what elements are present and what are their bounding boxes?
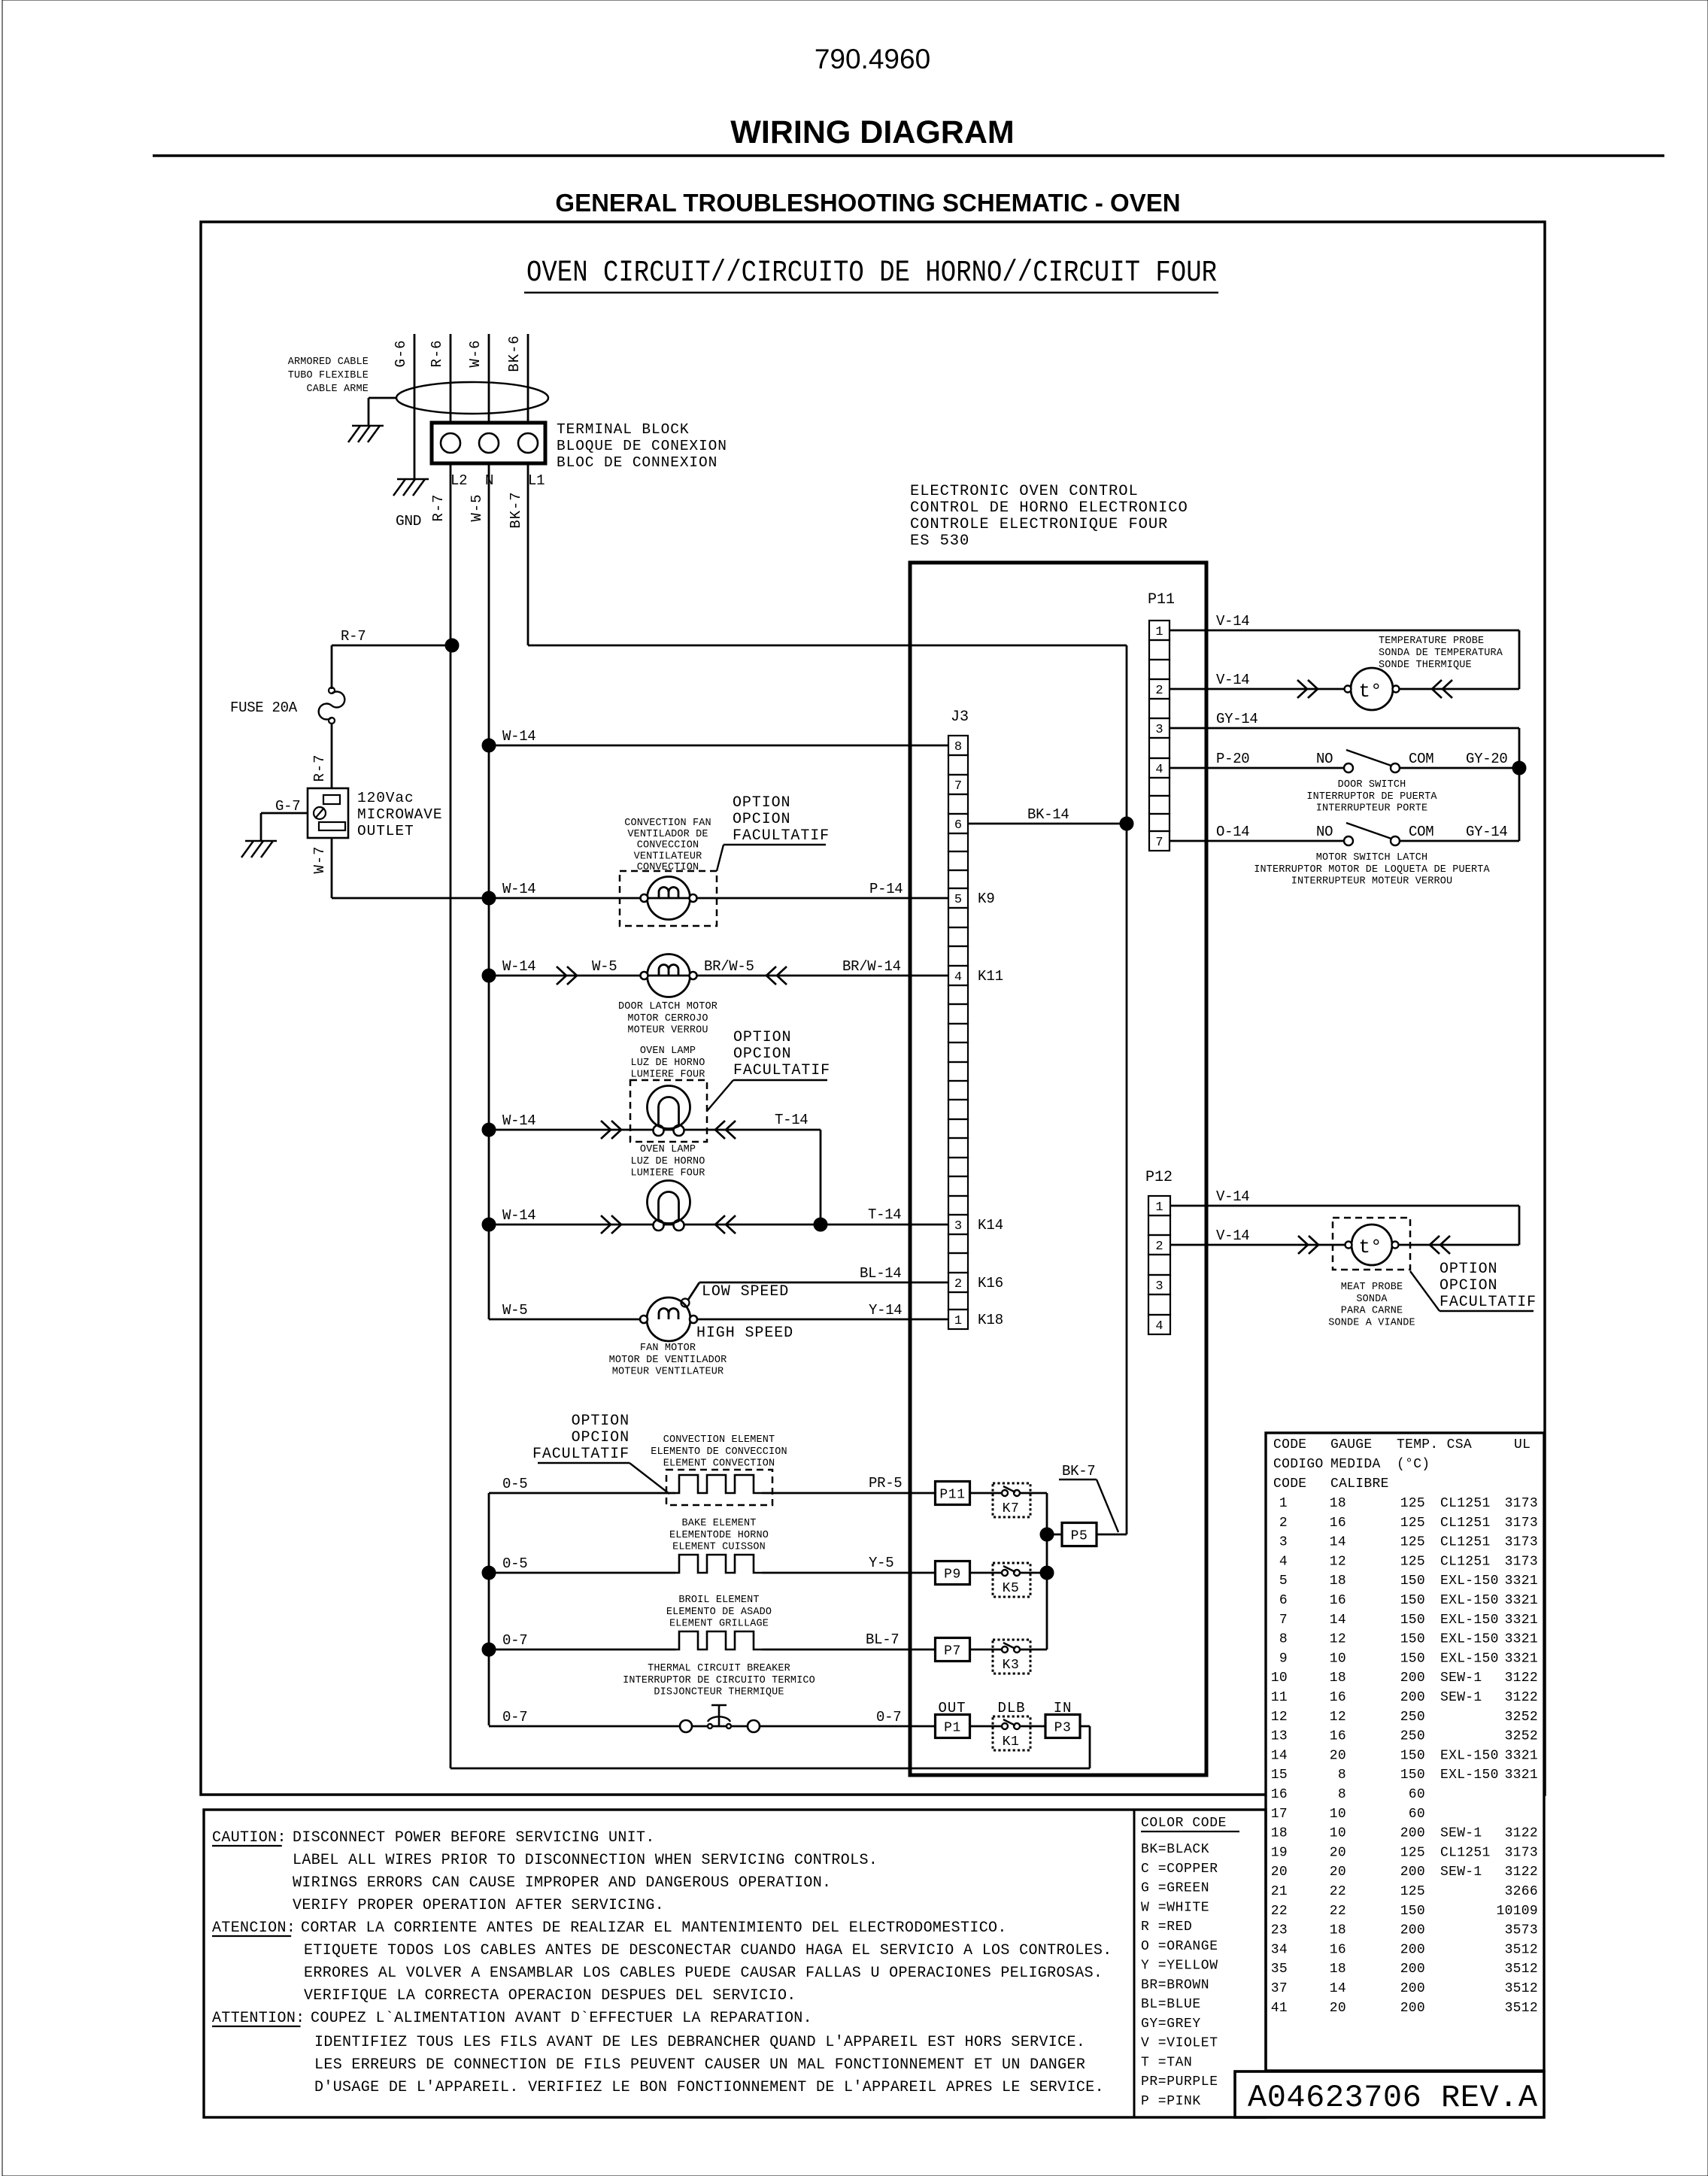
svg-text:A04623706 REV.A: A04623706 REV.A <box>1248 2080 1538 2116</box>
svg-text:PR-5: PR-5 <box>869 1475 902 1492</box>
svg-text:P-14: P-14 <box>869 881 903 897</box>
svg-text:200: 200 <box>1400 1981 1425 1996</box>
svg-text:LUMIERE FOUR: LUMIERE FOUR <box>630 1070 705 1081</box>
svg-text:200: 200 <box>1400 1671 1425 1686</box>
svg-text:SEW-1: SEW-1 <box>1440 1865 1482 1880</box>
svg-text:BK-6: BK-6 <box>506 335 523 372</box>
svg-text:CONTROLE ELECTRONIQUE FOUR: CONTROLE ELECTRONIQUE FOUR <box>910 516 1168 533</box>
svg-text:200: 200 <box>1400 1865 1425 1880</box>
svg-text:5: 5 <box>1279 1574 1288 1589</box>
svg-text:200: 200 <box>1400 1962 1425 1977</box>
svg-text:OVEN LAMP: OVEN LAMP <box>640 1144 696 1155</box>
svg-text:MEDIDA: MEDIDA <box>1330 1457 1381 1472</box>
svg-text:TEMP. CSA: TEMP. CSA <box>1397 1437 1472 1452</box>
svg-text:GY=GREY: GY=GREY <box>1141 2017 1201 2032</box>
svg-text:GY-14: GY-14 <box>1466 824 1508 840</box>
svg-text:P12: P12 <box>1145 1169 1173 1186</box>
svg-text:18: 18 <box>1330 1923 1346 1938</box>
svg-text:FAN MOTOR: FAN MOTOR <box>640 1343 696 1354</box>
svg-text:W =WHITE: W =WHITE <box>1141 1900 1209 1915</box>
svg-text:OVEN CIRCUIT//CIRCUITO DE HORN: OVEN CIRCUIT//CIRCUITO DE HORNO//CIRCUIT… <box>526 256 1217 290</box>
svg-text:12: 12 <box>1330 1554 1346 1569</box>
svg-text:MOTEUR VENTILATEUR: MOTEUR VENTILATEUR <box>612 1367 724 1378</box>
svg-text:18: 18 <box>1330 1671 1346 1686</box>
svg-text:CONVECTION ELEMENT: CONVECTION ELEMENT <box>663 1434 775 1446</box>
svg-text:7: 7 <box>954 779 962 794</box>
svg-text:P-20: P-20 <box>1216 751 1249 767</box>
svg-text:COUPEZ L`ALIMENTATION AVANT D`: COUPEZ L`ALIMENTATION AVANT D`EFFECTUER … <box>311 2010 812 2027</box>
svg-text:INTERRUPTEUR PORTE: INTERRUPTEUR PORTE <box>1316 803 1428 815</box>
svg-text:COM: COM <box>1409 824 1433 840</box>
svg-text:125: 125 <box>1400 1516 1425 1531</box>
svg-text:t°: t° <box>1358 1236 1382 1258</box>
svg-text:P9: P9 <box>944 1568 961 1583</box>
svg-text:250: 250 <box>1400 1729 1425 1744</box>
svg-text:BAKE ELEMENT: BAKE ELEMENT <box>681 1518 756 1529</box>
svg-text:125: 125 <box>1400 1884 1425 1899</box>
svg-text:0-7: 0-7 <box>502 1632 527 1649</box>
svg-text:TEMPERATURE PROBE: TEMPERATURE PROBE <box>1379 636 1484 647</box>
svg-text:790.4960: 790.4960 <box>815 44 930 74</box>
svg-text:COLOR CODE: COLOR CODE <box>1141 1816 1227 1831</box>
svg-text:4: 4 <box>954 970 962 985</box>
svg-text:GAUGE: GAUGE <box>1330 1437 1373 1452</box>
svg-text:SONDA: SONDA <box>1356 1294 1388 1305</box>
svg-text:Y-14: Y-14 <box>869 1302 902 1319</box>
svg-text:T-14: T-14 <box>775 1112 808 1128</box>
svg-text:60: 60 <box>1409 1807 1425 1822</box>
svg-text:VENTILADOR DE: VENTILADOR DE <box>627 829 708 840</box>
svg-text:NO: NO <box>1316 751 1333 767</box>
svg-text:3173: 3173 <box>1505 1554 1538 1569</box>
svg-text:GND: GND <box>396 513 421 530</box>
svg-text:W-5: W-5 <box>469 494 485 522</box>
svg-text:P5: P5 <box>1071 1529 1088 1544</box>
svg-text:3512: 3512 <box>1505 1962 1538 1977</box>
svg-text:20: 20 <box>1330 2001 1346 2016</box>
svg-text:WIRING DIAGRAM: WIRING DIAGRAM <box>730 114 1014 150</box>
svg-text:16: 16 <box>1330 1690 1346 1705</box>
svg-text:BL-14: BL-14 <box>860 1265 902 1282</box>
svg-text:VERIFY PROPER OPERATION AFTER: VERIFY PROPER OPERATION AFTER SERVICING. <box>293 1897 664 1914</box>
svg-text:3252: 3252 <box>1505 1710 1538 1725</box>
svg-text:LUMIERE FOUR: LUMIERE FOUR <box>630 1168 705 1179</box>
svg-text:CL1251: CL1251 <box>1440 1554 1491 1569</box>
svg-text:11: 11 <box>1271 1690 1288 1705</box>
svg-text:SONDE THERMIQUE: SONDE THERMIQUE <box>1379 660 1472 671</box>
svg-text:10109: 10109 <box>1496 1904 1538 1919</box>
svg-text:EXL-150: EXL-150 <box>1440 1632 1499 1647</box>
svg-text:3173: 3173 <box>1505 1496 1538 1511</box>
svg-text:20: 20 <box>1330 1845 1346 1860</box>
svg-text:3512: 3512 <box>1505 2001 1538 2016</box>
svg-text:PARA CARNE: PARA CARNE <box>1341 1306 1403 1317</box>
svg-text:V-14: V-14 <box>1216 672 1249 688</box>
svg-text:T-14: T-14 <box>868 1206 901 1223</box>
svg-text:16: 16 <box>1330 1593 1346 1608</box>
svg-text:MOTEUR VERROU: MOTEUR VERROU <box>627 1025 708 1036</box>
svg-text:120Vac: 120Vac <box>357 790 414 806</box>
svg-text:W-14: W-14 <box>502 1112 535 1129</box>
svg-text:CONVECTION: CONVECTION <box>637 862 699 873</box>
svg-text:THERMAL CIRCUIT BREAKER: THERMAL CIRCUIT BREAKER <box>648 1663 790 1674</box>
svg-text:CORTAR LA CORRIENTE ANTES DE R: CORTAR LA CORRIENTE ANTES DE REALIZAR EL… <box>301 1920 1007 1937</box>
svg-text:60: 60 <box>1409 1787 1425 1802</box>
svg-text:LOW SPEED: LOW SPEED <box>702 1283 789 1300</box>
svg-text:3321: 3321 <box>1505 1613 1538 1628</box>
svg-text:18: 18 <box>1330 1962 1346 1977</box>
svg-text:EXL-150: EXL-150 <box>1440 1593 1499 1608</box>
svg-text:W-6: W-6 <box>467 340 484 368</box>
svg-text:3512: 3512 <box>1505 1981 1538 1996</box>
svg-text:K5: K5 <box>1003 1581 1020 1596</box>
svg-text:ELEMENTODE HORNO: ELEMENTODE HORNO <box>669 1530 769 1541</box>
svg-text:MOTOR DE VENTILADOR: MOTOR DE VENTILADOR <box>609 1355 727 1366</box>
svg-text:125: 125 <box>1400 1496 1425 1511</box>
svg-text:20: 20 <box>1330 1748 1346 1763</box>
svg-text:GY-14: GY-14 <box>1216 711 1258 727</box>
svg-text:3321: 3321 <box>1505 1768 1538 1783</box>
svg-text:P11: P11 <box>1148 591 1175 608</box>
svg-text:18: 18 <box>1330 1574 1346 1589</box>
svg-text:W-14: W-14 <box>502 881 535 897</box>
svg-text:1: 1 <box>954 1314 962 1328</box>
svg-text:BR/W-5: BR/W-5 <box>704 958 754 975</box>
svg-text:2: 2 <box>1155 684 1163 698</box>
svg-text:35: 35 <box>1271 1962 1288 1977</box>
svg-text:150: 150 <box>1400 1651 1425 1666</box>
svg-text:10: 10 <box>1271 1671 1288 1686</box>
svg-text:EXL-150: EXL-150 <box>1440 1768 1499 1783</box>
svg-text:C =COPPER: C =COPPER <box>1141 1862 1218 1877</box>
svg-text:R-7: R-7 <box>430 494 447 522</box>
svg-text:WIRINGS ERRORS CAN CAUSE IMPRO: WIRINGS ERRORS CAN CAUSE IMPROPER AND DA… <box>293 1874 831 1892</box>
svg-text:16: 16 <box>1330 1516 1346 1531</box>
svg-text:CODE: CODE <box>1273 1437 1306 1452</box>
svg-text:3: 3 <box>1155 723 1163 737</box>
svg-text:SEW-1: SEW-1 <box>1440 1826 1482 1841</box>
svg-text:150: 150 <box>1400 1748 1425 1763</box>
svg-text:0-7: 0-7 <box>502 1709 527 1725</box>
svg-text:34: 34 <box>1271 1942 1288 1957</box>
svg-text:K14: K14 <box>978 1217 1003 1234</box>
svg-text:BL=BLUE: BL=BLUE <box>1141 1997 1201 2012</box>
svg-text:O-14: O-14 <box>1216 824 1249 840</box>
svg-text:EXL-150: EXL-150 <box>1440 1574 1499 1589</box>
svg-text:t°: t° <box>1358 680 1382 703</box>
svg-text:BLOQUE DE CONEXION: BLOQUE DE CONEXION <box>557 438 727 454</box>
svg-text:HIGH SPEED: HIGH SPEED <box>696 1325 793 1342</box>
svg-text:22: 22 <box>1271 1904 1288 1919</box>
svg-text:CAUTION:: CAUTION: <box>212 1829 287 1847</box>
svg-text:V-14: V-14 <box>1216 613 1249 630</box>
svg-text:G-6: G-6 <box>393 340 409 368</box>
svg-text:LUZ DE HORNO: LUZ DE HORNO <box>630 1058 705 1069</box>
svg-text:150: 150 <box>1400 1632 1425 1647</box>
svg-text:P3: P3 <box>1054 1721 1072 1736</box>
svg-text:DOOR SWITCH: DOOR SWITCH <box>1338 779 1406 791</box>
svg-text:CL1251: CL1251 <box>1440 1516 1491 1531</box>
svg-text:6: 6 <box>1279 1593 1288 1608</box>
svg-text:K3: K3 <box>1003 1658 1020 1673</box>
svg-text:3321: 3321 <box>1505 1632 1538 1647</box>
svg-text:P =PINK: P =PINK <box>1141 2094 1201 2109</box>
svg-text:V-14: V-14 <box>1216 1188 1249 1205</box>
svg-text:UL: UL <box>1514 1437 1531 1452</box>
svg-text:INTERRUPTEUR MOTEUR VERROU: INTERRUPTEUR MOTEUR VERROU <box>1291 876 1453 888</box>
svg-text:16: 16 <box>1271 1787 1288 1802</box>
svg-text:14: 14 <box>1330 1535 1346 1550</box>
svg-text:MEAT PROBE: MEAT PROBE <box>1341 1282 1403 1293</box>
svg-text:250: 250 <box>1400 1710 1425 1725</box>
svg-text:3321: 3321 <box>1505 1651 1538 1666</box>
svg-text:150: 150 <box>1400 1768 1425 1783</box>
svg-text:W-5: W-5 <box>592 958 617 975</box>
svg-text:R-7: R-7 <box>341 628 366 645</box>
svg-text:NO: NO <box>1316 824 1333 840</box>
svg-text:ELEMENT CUISSON: ELEMENT CUISSON <box>672 1542 766 1553</box>
svg-text:16: 16 <box>1330 1729 1346 1744</box>
svg-text:3512: 3512 <box>1505 1942 1538 1957</box>
svg-text:W-14: W-14 <box>502 958 535 975</box>
svg-text:ES 530: ES 530 <box>910 533 969 550</box>
svg-text:19: 19 <box>1271 1845 1288 1860</box>
svg-text:GY-20: GY-20 <box>1466 751 1508 767</box>
svg-text:TERMINAL BLOCK: TERMINAL BLOCK <box>557 421 689 438</box>
svg-text:3122: 3122 <box>1505 1865 1538 1880</box>
svg-text:BLOC DE CONNEXION: BLOC DE CONNEXION <box>557 454 717 471</box>
svg-text:ELEMENTO DE CONVECCION: ELEMENTO DE CONVECCION <box>651 1446 787 1458</box>
svg-text:10: 10 <box>1330 1807 1346 1822</box>
svg-text:DISJONCTEUR THERMIQUE: DISJONCTEUR THERMIQUE <box>654 1687 784 1698</box>
svg-text:3321: 3321 <box>1505 1593 1538 1608</box>
svg-text:3122: 3122 <box>1505 1671 1538 1686</box>
svg-text:K1: K1 <box>1003 1734 1020 1750</box>
svg-text:PR=PURPLE: PR=PURPLE <box>1141 2074 1218 2090</box>
svg-text:ERRORES AL VOLVER A ENSAMBLAR: ERRORES AL VOLVER A ENSAMBLAR LOS CABLES… <box>304 1965 1103 1982</box>
svg-text:14: 14 <box>1271 1748 1288 1763</box>
svg-text:VERIFIQUE LA CORRECTA OPERACIO: VERIFIQUE LA CORRECTA OPERACION DESPUES … <box>304 1987 796 2005</box>
svg-text:BL-7: BL-7 <box>866 1631 899 1648</box>
svg-text:P7: P7 <box>944 1644 961 1659</box>
svg-text:CONVECCION: CONVECCION <box>637 840 699 851</box>
svg-text:DLB: DLB <box>998 1700 1026 1716</box>
svg-text:CL1251: CL1251 <box>1440 1845 1491 1860</box>
svg-text:BROIL ELEMENT: BROIL ELEMENT <box>678 1595 759 1606</box>
svg-text:12: 12 <box>1330 1632 1346 1647</box>
svg-text:0-5: 0-5 <box>502 1555 527 1572</box>
svg-text:12: 12 <box>1330 1710 1346 1725</box>
svg-text:MOTOR CERROJO: MOTOR CERROJO <box>627 1013 708 1024</box>
svg-text:3573: 3573 <box>1505 1923 1538 1938</box>
svg-text:13: 13 <box>1271 1729 1288 1744</box>
svg-text:4: 4 <box>1155 1319 1163 1334</box>
svg-text:OPCION: OPCION <box>1440 1277 1497 1294</box>
svg-text:1: 1 <box>1155 625 1163 639</box>
svg-text:22: 22 <box>1330 1904 1346 1919</box>
svg-text:1: 1 <box>1279 1496 1288 1511</box>
svg-text:OPCION: OPCION <box>733 811 790 828</box>
svg-text:OVEN LAMP: OVEN LAMP <box>640 1046 696 1057</box>
svg-text:BK-7: BK-7 <box>508 491 524 528</box>
svg-text:D'USAGE DE L'APPAREIL. VERIFIE: D'USAGE DE L'APPAREIL. VERIFIEZ LE BON F… <box>314 2079 1104 2096</box>
svg-text:COM: COM <box>1409 751 1433 767</box>
svg-text:7: 7 <box>1279 1613 1288 1628</box>
svg-text:P11: P11 <box>939 1488 965 1503</box>
svg-text:(°C): (°C) <box>1397 1457 1430 1472</box>
svg-text:EXL-150: EXL-150 <box>1440 1651 1499 1666</box>
svg-text:VENTILATEUR: VENTILATEUR <box>634 851 702 862</box>
svg-text:W-14: W-14 <box>502 1207 535 1224</box>
svg-text:OPTION: OPTION <box>733 1029 791 1046</box>
svg-text:37: 37 <box>1271 1981 1288 1996</box>
svg-text:GENERAL TROUBLESHOOTING SCHEMA: GENERAL TROUBLESHOOTING SCHEMATIC - OVEN <box>555 189 1180 217</box>
svg-text:L2: L2 <box>451 472 467 489</box>
svg-text:OUTLET: OUTLET <box>357 823 414 839</box>
svg-text:3173: 3173 <box>1505 1845 1538 1860</box>
svg-text:150: 150 <box>1400 1593 1425 1608</box>
svg-text:INTERRUPTOR MOTOR DE LOQUETA D: INTERRUPTOR MOTOR DE LOQUETA DE PUERTA <box>1254 864 1490 876</box>
svg-text:3173: 3173 <box>1505 1535 1538 1550</box>
svg-text:5: 5 <box>954 893 962 907</box>
svg-text:R =RED: R =RED <box>1141 1920 1192 1935</box>
svg-text:8: 8 <box>1338 1787 1346 1802</box>
svg-text:200: 200 <box>1400 1923 1425 1938</box>
svg-text:12: 12 <box>1271 1710 1288 1725</box>
svg-text:SEW-1: SEW-1 <box>1440 1671 1482 1686</box>
svg-text:3: 3 <box>954 1219 962 1234</box>
svg-text:J3: J3 <box>951 709 969 726</box>
svg-text:9: 9 <box>1279 1651 1288 1666</box>
svg-text:TUBO FLEXIBLE: TUBO FLEXIBLE <box>288 370 369 381</box>
svg-text:3: 3 <box>1155 1279 1163 1294</box>
svg-text:3: 3 <box>1279 1535 1288 1550</box>
svg-text:CODE: CODE <box>1273 1476 1306 1492</box>
svg-text:16: 16 <box>1330 1942 1346 1957</box>
svg-text:INTERRUPTOR DE PUERTA: INTERRUPTOR DE PUERTA <box>1306 791 1437 803</box>
svg-text:FACULTATIF: FACULTATIF <box>733 1062 830 1079</box>
svg-text:LABEL ALL WIRES PRIOR TO DISCO: LABEL ALL WIRES PRIOR TO DISCONNECTION W… <box>293 1852 878 1869</box>
svg-text:10: 10 <box>1330 1651 1346 1666</box>
svg-text:ATENCION:: ATENCION: <box>212 1920 296 1937</box>
svg-text:MOTOR SWITCH LATCH: MOTOR SWITCH LATCH <box>1316 852 1428 863</box>
svg-text:3321: 3321 <box>1505 1748 1538 1763</box>
svg-text:INTERRUPTOR DE CIRCUITO TERMIC: INTERRUPTOR DE CIRCUITO TERMICO <box>623 1675 815 1686</box>
svg-text:CALIBRE: CALIBRE <box>1330 1476 1389 1492</box>
svg-text:CABLE ARME: CABLE ARME <box>306 384 369 395</box>
svg-text:OPTION: OPTION <box>1440 1261 1497 1278</box>
svg-text:BR=BROWN: BR=BROWN <box>1141 1977 1209 1992</box>
svg-text:G =GREEN: G =GREEN <box>1141 1881 1209 1896</box>
svg-text:3122: 3122 <box>1505 1690 1538 1705</box>
svg-text:BK-7: BK-7 <box>1062 1463 1095 1479</box>
svg-text:41: 41 <box>1271 2001 1288 2016</box>
svg-text:4: 4 <box>1279 1554 1288 1569</box>
svg-text:200: 200 <box>1400 2001 1425 2016</box>
svg-text:LES ERREURS DE CONNECTION DE F: LES ERREURS DE CONNECTION DE FILS PEUVEN… <box>314 2056 1085 2074</box>
svg-text:17: 17 <box>1271 1807 1288 1822</box>
svg-text:CODIGO: CODIGO <box>1273 1457 1324 1472</box>
svg-text:W-14: W-14 <box>502 728 535 745</box>
svg-text:0-5: 0-5 <box>502 1476 527 1492</box>
svg-text:22: 22 <box>1330 1884 1346 1899</box>
svg-text:SONDE A VIANDE: SONDE A VIANDE <box>1328 1317 1415 1328</box>
svg-text:K7: K7 <box>1003 1501 1020 1516</box>
svg-text:20: 20 <box>1271 1865 1288 1880</box>
svg-text:K9: K9 <box>978 891 995 907</box>
svg-text:3266: 3266 <box>1505 1884 1538 1899</box>
svg-text:W-7: W-7 <box>311 846 328 874</box>
svg-text:EXL-150: EXL-150 <box>1440 1613 1499 1628</box>
svg-text:125: 125 <box>1400 1535 1425 1550</box>
svg-text:Y =YELLOW: Y =YELLOW <box>1141 1959 1218 1974</box>
svg-text:FACULTATIF: FACULTATIF <box>532 1446 630 1463</box>
svg-text:SONDA DE TEMPERATURA: SONDA DE TEMPERATURA <box>1379 648 1503 659</box>
svg-text:ATTENTION:: ATTENTION: <box>212 2010 305 2027</box>
svg-text:8: 8 <box>1279 1632 1288 1647</box>
svg-text:BK=BLACK: BK=BLACK <box>1141 1842 1209 1857</box>
svg-text:SEW-1: SEW-1 <box>1440 1690 1482 1705</box>
svg-text:O =ORANGE: O =ORANGE <box>1141 1939 1218 1954</box>
svg-text:FACULTATIF: FACULTATIF <box>1440 1294 1537 1311</box>
svg-text:DISCONNECT POWER BEFORE SERVIC: DISCONNECT POWER BEFORE SERVICING UNIT. <box>293 1829 655 1847</box>
svg-text:3252: 3252 <box>1505 1729 1538 1744</box>
svg-text:CONVECTION FAN: CONVECTION FAN <box>624 818 711 829</box>
svg-text:ARMORED CABLE: ARMORED CABLE <box>288 357 369 368</box>
svg-text:V =VIOLET: V =VIOLET <box>1141 2036 1218 2051</box>
svg-text:1: 1 <box>1155 1200 1163 1215</box>
svg-text:2: 2 <box>954 1277 962 1291</box>
svg-text:L1: L1 <box>528 472 545 489</box>
svg-text:OPCION: OPCION <box>572 1429 630 1446</box>
svg-text:OPTION: OPTION <box>572 1413 630 1430</box>
svg-text:14: 14 <box>1330 1613 1346 1628</box>
svg-text:K11: K11 <box>978 968 1003 985</box>
svg-text:ELEMENTO DE ASADO: ELEMENTO DE ASADO <box>666 1607 772 1618</box>
svg-text:CONTROL DE HORNO ELECTRONICO: CONTROL DE HORNO ELECTRONICO <box>910 499 1188 517</box>
svg-text:2: 2 <box>1279 1516 1288 1531</box>
svg-text:7: 7 <box>1155 836 1163 850</box>
svg-text:IDENTIFIEZ TOUS LES FILS AVANT: IDENTIFIEZ TOUS LES FILS AVANT DE LES DE… <box>314 2034 1085 2051</box>
svg-text:23: 23 <box>1271 1923 1288 1938</box>
svg-text:150: 150 <box>1400 1574 1425 1589</box>
svg-text:10: 10 <box>1330 1826 1346 1841</box>
svg-text:150: 150 <box>1400 1904 1425 1919</box>
svg-text:200: 200 <box>1400 1690 1425 1705</box>
svg-text:6: 6 <box>954 818 962 833</box>
svg-text:ELEMENT GRILLAGE: ELEMENT GRILLAGE <box>669 1619 769 1630</box>
svg-text:125: 125 <box>1400 1554 1425 1569</box>
svg-text:R-7: R-7 <box>311 754 328 782</box>
svg-text:V-14: V-14 <box>1216 1228 1249 1244</box>
svg-text:18: 18 <box>1271 1826 1288 1841</box>
svg-text:T =TAN: T =TAN <box>1141 2055 1192 2070</box>
svg-text:ETIQUETE TODOS LOS CABLES ANTE: ETIQUETE TODOS LOS CABLES ANTES DE DESCO… <box>304 1942 1112 1959</box>
svg-text:3173: 3173 <box>1505 1516 1538 1531</box>
svg-text:125: 125 <box>1400 1845 1425 1860</box>
svg-text:2: 2 <box>1155 1240 1163 1254</box>
svg-text:200: 200 <box>1400 1942 1425 1957</box>
svg-text:FACULTATIF: FACULTATIF <box>733 827 830 845</box>
svg-text:Y-5: Y-5 <box>869 1555 893 1571</box>
svg-text:EXL-150: EXL-150 <box>1440 1748 1499 1763</box>
svg-text:14: 14 <box>1330 1981 1346 1996</box>
svg-text:8: 8 <box>954 740 962 754</box>
svg-text:K16: K16 <box>978 1275 1003 1291</box>
svg-text:OPTION: OPTION <box>733 794 790 812</box>
svg-text:0-7: 0-7 <box>876 1709 901 1725</box>
svg-text:ELECTRONIC OVEN CONTROL: ELECTRONIC OVEN CONTROL <box>910 483 1139 500</box>
